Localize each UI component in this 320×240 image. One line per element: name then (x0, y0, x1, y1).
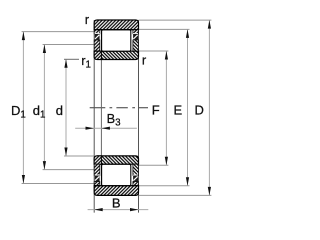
extension line D bottom (139, 194, 212, 196)
extension line F top (139, 50, 169, 52)
svg-text:B3: B3 (107, 111, 122, 129)
label F (152, 103, 160, 118)
svg-text:F: F (152, 103, 160, 118)
B3 extension line right (roller face line between sections) (100, 30, 102, 186)
extension line d1 top (43, 44, 95, 46)
label d1 (33, 103, 46, 121)
bottom section: outer ring band (hatch ///) (94, 186, 138, 196)
extension line F bottom (139, 164, 169, 166)
bottom section: rib washer square right (133, 175, 138, 183)
bottom section: rib washer square left (95, 175, 100, 183)
dimension line E with arrows (186, 29, 189, 185)
extension line d1 bottom (43, 169, 95, 171)
bearing left face line / B, B3 extension (93, 20, 95, 213)
label r right (142, 52, 147, 67)
label r top left (85, 12, 90, 27)
label E (174, 103, 183, 118)
top section: outer ring band (hatch ///) (94, 20, 138, 30)
top section: roller (102, 30, 131, 51)
dimension line F with arrows (165, 51, 168, 165)
top section: rib washer square left (95, 33, 100, 41)
top section: outer ring rib left (94, 30, 100, 34)
top section: raceway line (94, 29, 138, 31)
dimension line B3 with outside arrows (75, 127, 137, 130)
extension line E top (139, 28, 190, 30)
top section: rib washer square right (133, 33, 138, 41)
extension line D1 top (22, 31, 95, 33)
svg-text:d1: d1 (33, 103, 46, 121)
svg-text:r: r (142, 52, 147, 67)
svg-text:D: D (195, 103, 204, 118)
bottom section: loose rib vertical part left (94, 164, 100, 175)
bottom section: raceway line (94, 185, 138, 187)
bearing right face line / B extension (138, 20, 140, 213)
extension line d top (interrupted by r1 label) (64, 58, 79, 60)
bottom section: outer ring rib right (133, 182, 139, 186)
label d (56, 103, 63, 118)
bottom section: roller (102, 164, 131, 185)
dimension line d with arrows (64, 59, 67, 156)
bottom section: loose rib foot (hatch ///) (94, 156, 101, 164)
top section: inner ring rib right (133, 40, 139, 51)
label D1 (11, 103, 26, 121)
bottom section: inner ring rib right (133, 164, 139, 175)
extension line D1 bottom (22, 183, 95, 185)
bottom section: outer ring rib left (94, 182, 100, 186)
extension line d bottom (64, 155, 94, 157)
top section: loose rib foot (hatch ///) (94, 51, 101, 59)
bottom section: inner ring band (hatch \\\) (94, 156, 138, 164)
top section: outer ring rib right (133, 30, 139, 34)
label B (112, 196, 121, 211)
extension line E bottom (139, 185, 190, 187)
svg-text:E: E (174, 103, 183, 118)
dimension line B with inside arrows (88, 208, 149, 211)
svg-text:d: d (56, 103, 63, 118)
top section: inner ring band (hatch \\\) (94, 51, 138, 59)
dimension line D1 with arrows (22, 32, 25, 184)
svg-text:B: B (112, 196, 121, 211)
label D (195, 103, 204, 118)
extension line D top (139, 19, 212, 21)
svg-text:r: r (85, 12, 90, 27)
top section: loose rib vertical part left (94, 40, 100, 51)
label r1 left (81, 53, 91, 71)
centerline (bearing axis, dash-dot) (90, 107, 148, 109)
label B3 (107, 111, 122, 129)
dimension line d1 with arrows (43, 45, 46, 170)
dimension line D with arrows (208, 20, 211, 195)
svg-text:r1: r1 (81, 53, 91, 71)
